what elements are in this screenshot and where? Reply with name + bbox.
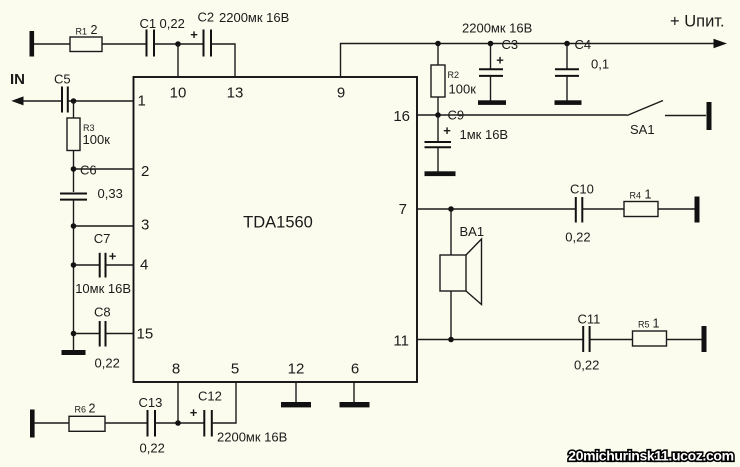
svg-text:0,22: 0,22 xyxy=(574,358,599,373)
svg-text:+: + xyxy=(190,405,198,420)
svg-text:+: + xyxy=(443,123,451,138)
terminal bar SA1 xyxy=(707,102,712,130)
resistor R6 xyxy=(69,402,105,432)
wire pin10 riser xyxy=(177,44,179,77)
capacitor C7 polarized xyxy=(74,231,134,296)
svg-text:+: + xyxy=(190,27,198,42)
terminal bar R5 out xyxy=(702,326,707,352)
watermark 20michurinsk11.ucoz.com xyxy=(568,448,733,464)
ground C3 xyxy=(478,100,506,105)
capacitor C10 xyxy=(565,182,594,245)
svg-text:20michurinsk11.ucoz.com: 20michurinsk11.ucoz.com xyxy=(568,448,733,464)
svg-text:16: 16 xyxy=(393,108,410,125)
svg-text:+: + xyxy=(109,249,117,264)
node pin11/BA1 xyxy=(448,337,454,343)
node R2/C9/pin16 xyxy=(435,112,441,118)
node C5/R3/pin1 xyxy=(71,98,77,104)
svg-text:IN: IN xyxy=(10,71,25,88)
node R3/C6/pin2 xyxy=(71,166,77,172)
svg-text:R6: R6 xyxy=(75,405,87,415)
svg-text:2200мк 16В: 2200мк 16В xyxy=(217,430,287,445)
svg-text:15: 15 xyxy=(137,326,154,343)
capacitor C9 polarized xyxy=(425,108,509,173)
svg-text:5: 5 xyxy=(231,361,239,378)
capacitor C3 polarized xyxy=(479,37,518,101)
svg-text:C1: C1 xyxy=(140,16,157,31)
svg-text:C3: C3 xyxy=(502,37,519,52)
svg-text:100к: 100к xyxy=(83,132,111,147)
svg-text:12: 12 xyxy=(288,361,305,378)
svg-text:R5: R5 xyxy=(638,320,650,330)
svg-text:C12: C12 xyxy=(198,389,222,404)
svg-text:C9: C9 xyxy=(448,108,465,123)
svg-text:0,33: 0,33 xyxy=(98,186,123,201)
svg-text:C5: C5 xyxy=(54,72,71,87)
wire xyxy=(34,422,69,424)
ground pin6 xyxy=(340,402,370,407)
wire pin3 xyxy=(74,225,134,227)
svg-text:4: 4 xyxy=(140,257,148,274)
wire xyxy=(105,422,148,424)
wire xyxy=(154,43,203,45)
wire pin6 riser xyxy=(353,382,355,402)
node junction C1/C2/pin10 xyxy=(175,41,181,47)
svg-text:13: 13 xyxy=(227,85,244,102)
svg-text:C6: C6 xyxy=(80,163,97,178)
svg-text:2: 2 xyxy=(141,163,149,180)
wire pin16 row xyxy=(417,114,627,116)
svg-text:2: 2 xyxy=(89,402,96,416)
wire xyxy=(34,43,70,45)
wire pin5 riser xyxy=(212,382,236,423)
wire xyxy=(211,44,235,77)
svg-text:8: 8 xyxy=(172,361,180,378)
svg-text:10мк 16В: 10мк 16В xyxy=(75,281,131,296)
svg-text:3: 3 xyxy=(141,217,149,234)
node C13/C12/pin8 xyxy=(175,420,181,426)
svg-text:R2: R2 xyxy=(448,70,460,80)
svg-text:C4: C4 xyxy=(575,37,592,52)
svg-text:9: 9 xyxy=(337,85,345,102)
svg-text:0,22: 0,22 xyxy=(565,230,590,245)
node rail/C3 xyxy=(488,41,494,47)
svg-text:6: 6 xyxy=(351,361,359,378)
svg-text:1: 1 xyxy=(653,317,660,331)
svg-text:0,22: 0,22 xyxy=(95,356,120,371)
svg-text:C13: C13 xyxy=(139,395,163,410)
supply rail arrow head xyxy=(714,39,728,49)
ground left bus xyxy=(62,350,86,355)
wire pin9 riser to supply rail xyxy=(341,44,716,78)
svg-text:0,22: 0,22 xyxy=(140,441,165,456)
svg-text:+: + xyxy=(496,53,504,68)
capacitor C4 xyxy=(555,37,609,101)
svg-text:TDA1560: TDA1560 xyxy=(243,214,313,232)
wire xyxy=(590,339,633,341)
resistor R1 xyxy=(70,23,102,52)
node pin3 xyxy=(71,223,77,229)
switch SA1 xyxy=(627,101,706,138)
svg-text:7: 7 xyxy=(399,201,407,218)
wire pin1 xyxy=(68,100,134,102)
ground pin12 xyxy=(281,402,311,407)
node rail/R2 xyxy=(435,41,441,47)
wire pin7 row xyxy=(417,208,576,210)
capacitor C11 xyxy=(574,312,600,373)
wire pin8 riser xyxy=(177,382,179,423)
svg-text:1: 1 xyxy=(645,188,652,202)
svg-text:1мк 16В: 1мк 16В xyxy=(460,127,509,142)
capacitor C12 polarized xyxy=(190,389,288,445)
capacitor C1 xyxy=(140,16,185,57)
svg-text:2: 2 xyxy=(91,23,98,37)
node C8 xyxy=(71,331,77,337)
wire xyxy=(102,43,146,45)
svg-text:2200мк 16В: 2200мк 16В xyxy=(219,10,289,25)
wire xyxy=(155,422,205,424)
capacitor C13 xyxy=(139,395,165,456)
resistor R3 xyxy=(67,101,110,192)
capacitor C2 polarized xyxy=(190,10,289,57)
terminal bar R4 out xyxy=(695,197,700,223)
terminal bar top-left input xyxy=(30,31,35,57)
capacitor C6 xyxy=(60,163,123,202)
svg-text:0,22: 0,22 xyxy=(160,16,185,31)
svg-text:2200мк 16В: 2200мк 16В xyxy=(462,21,532,36)
speaker BA1 xyxy=(440,209,484,340)
capacitor C5 xyxy=(54,72,71,113)
resistor R5 xyxy=(633,317,667,347)
wire pin11 row xyxy=(417,339,583,341)
capacitor C8 xyxy=(74,305,134,371)
svg-text:+ Uпит.: + Uпит. xyxy=(670,13,725,31)
svg-text:1: 1 xyxy=(138,93,146,110)
node rail/C4 xyxy=(564,41,570,47)
node pin7/BA1 xyxy=(448,206,454,212)
svg-text:100к: 100к xyxy=(449,82,477,97)
wire xyxy=(582,208,624,210)
node C7 xyxy=(71,262,77,268)
svg-text:R1: R1 xyxy=(76,27,88,37)
svg-text:BA1: BA1 xyxy=(460,224,485,239)
terminal bar bottom-left xyxy=(30,410,35,438)
ground C4 xyxy=(555,100,582,105)
ground C9 xyxy=(425,171,456,176)
resistor R2 xyxy=(431,44,476,116)
svg-text:C10: C10 xyxy=(570,182,594,197)
resistor R4 xyxy=(624,188,658,217)
wire pin12 riser xyxy=(295,382,297,402)
svg-text:C2: C2 xyxy=(198,10,215,25)
wire xyxy=(667,339,703,341)
svg-text:11: 11 xyxy=(393,333,409,350)
svg-text:C7: C7 xyxy=(94,231,111,246)
svg-text:0,1: 0,1 xyxy=(591,57,609,72)
wire bus down xyxy=(73,200,75,352)
wire pin2 xyxy=(74,168,134,170)
op-amp U1 TDA1560 IC body xyxy=(134,77,418,382)
svg-text:SA1: SA1 xyxy=(630,122,655,137)
svg-text:C8: C8 xyxy=(94,305,111,320)
wire xyxy=(658,208,695,210)
svg-text:C11: C11 xyxy=(578,312,601,327)
input arrow xyxy=(11,96,23,105)
svg-text:10: 10 xyxy=(170,85,187,102)
svg-text:R4: R4 xyxy=(630,191,642,201)
